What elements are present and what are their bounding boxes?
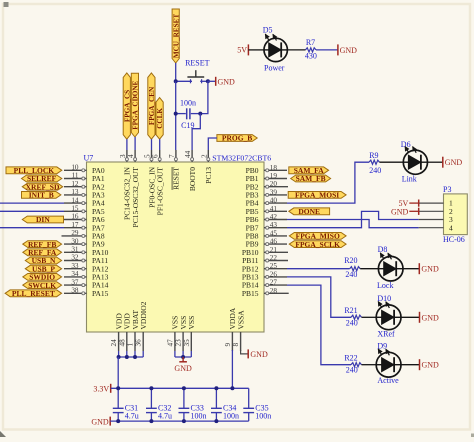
led D9 <box>376 349 401 377</box>
port SWCLK <box>23 281 62 290</box>
svg-text:240: 240 <box>369 166 381 175</box>
pin PA0 (pin 10) left <box>64 164 105 175</box>
svg-text:HC-06: HC-06 <box>443 235 465 244</box>
wire 5V to D5 <box>248 49 264 51</box>
svg-text:BOOT0: BOOT0 <box>188 167 197 191</box>
pin PC15-OSC32_OUT (pin 4) top <box>127 150 140 227</box>
svg-text:FPGA_CDONE: FPGA_CDONE <box>132 80 140 129</box>
svg-text:5V: 5V <box>237 46 247 55</box>
pin VDDA (pin 9) bottom <box>224 307 237 351</box>
resistor R9 240 <box>369 151 381 175</box>
resistor R22 240 <box>344 354 361 375</box>
port FPGA_MOSI <box>288 191 346 200</box>
svg-text:15: 15 <box>71 205 79 213</box>
wire D10 to GND <box>401 316 420 318</box>
svg-text:20: 20 <box>270 180 278 188</box>
pin PB1 (pin 19) right <box>246 172 287 183</box>
port PLL_LOCK <box>6 166 62 175</box>
pin PA14 (pin 37) left <box>64 278 109 289</box>
svg-text:48: 48 <box>118 339 126 347</box>
svg-text:P3: P3 <box>443 185 451 194</box>
svg-text:36: 36 <box>135 339 143 347</box>
connector P3 HC-06 <box>419 194 468 235</box>
pin PA12 (pin 33) left <box>64 262 109 273</box>
port SELREF <box>22 174 62 183</box>
svg-text:GND: GND <box>91 417 109 426</box>
svg-text:FPGA_SCLK: FPGA_SCLK <box>295 240 340 249</box>
wire reset net down to RESET pin 7 <box>175 81 177 150</box>
wire D5 to R7 <box>287 49 305 51</box>
svg-text:4: 4 <box>449 223 453 232</box>
svg-text:9: 9 <box>224 343 232 347</box>
junctions on GND rail <box>116 419 120 423</box>
svg-text:PF1-OSC_OUT: PF1-OSC_OUT <box>156 167 165 216</box>
resistor R21 240 <box>344 306 361 327</box>
wire R22 to D9 <box>362 364 377 366</box>
svg-text:29: 29 <box>71 229 79 237</box>
svg-text:R21: R21 <box>344 306 357 315</box>
svg-text:FPGA_MOSI: FPGA_MOSI <box>295 191 339 200</box>
pin PB8 (pin 45) right <box>246 229 287 240</box>
wire PB14 to R22 <box>287 285 351 365</box>
port SWDIO <box>23 273 62 282</box>
svg-text:32: 32 <box>71 254 79 262</box>
svg-text:VSS: VSS <box>187 316 196 330</box>
pin VDD (pin 24) bottom <box>110 313 123 351</box>
svg-text:45: 45 <box>270 229 278 237</box>
wire VSSA to GND <box>241 350 248 354</box>
svg-text:D6: D6 <box>401 140 411 149</box>
svg-text:13: 13 <box>71 188 79 196</box>
svg-text:PLL_RESET: PLL_RESET <box>12 289 55 298</box>
svg-text:STM32F072CBT6: STM32F072CBT6 <box>212 154 271 163</box>
svg-text:PROG_B: PROG_B <box>222 134 252 143</box>
wire PA5 to left edge <box>0 210 64 212</box>
pin PB12 (pin 25) right <box>242 262 287 273</box>
svg-text:Lock: Lock <box>377 281 393 290</box>
svg-text:RESET: RESET <box>185 58 210 67</box>
pin VSS (pin 35) bottom <box>183 316 196 351</box>
junction reset-right <box>206 79 210 83</box>
power GND at R7 <box>338 44 357 55</box>
port FPGA_CDONE <box>131 73 139 137</box>
port INIT_B <box>22 191 61 200</box>
power GND at VSSA <box>248 349 268 359</box>
svg-text:PC13: PC13 <box>204 167 213 184</box>
pin PC13 (pin 2) top <box>200 150 213 184</box>
pin PA3 (pin 13) left <box>64 188 105 199</box>
svg-text:10: 10 <box>71 164 79 172</box>
pin PA7 (pin 17) left <box>64 221 105 232</box>
wire MCU_RESET to reset net <box>175 63 177 81</box>
svg-text:GND: GND <box>340 46 358 55</box>
pin VSSA (pin 8) bottom <box>232 310 245 351</box>
pin PB5 (pin 41) right <box>246 205 287 216</box>
port SAM_FA <box>289 166 329 175</box>
svg-text:19: 19 <box>270 172 278 180</box>
svg-text:26: 26 <box>270 270 278 278</box>
svg-text:GND: GND <box>218 77 236 86</box>
wire PC13 to PROG_B <box>208 138 217 150</box>
svg-text:37: 37 <box>71 278 79 286</box>
power GND at D10 <box>420 312 440 323</box>
svg-text:MCU_RESET: MCU_RESET <box>172 14 180 59</box>
svg-text:31: 31 <box>71 246 79 254</box>
svg-text:DONE: DONE <box>298 207 320 216</box>
wire PA7 to left edge <box>0 227 64 229</box>
port XREF_SD <box>22 182 62 191</box>
pin PB11 (pin 22) right <box>242 254 288 265</box>
port FPGA_CEN <box>148 73 156 139</box>
pin PA5 (pin 15) left <box>64 205 105 216</box>
wire R7 to GND <box>316 49 338 51</box>
led D6 <box>403 146 427 174</box>
svg-text:33: 33 <box>71 262 79 270</box>
pin PB2 (pin 20) right <box>246 180 288 191</box>
pin PB15 (pin 28) right <box>242 287 289 298</box>
port REF_FB <box>23 240 62 249</box>
pin PA1 (pin 11) left <box>64 172 105 183</box>
svg-text:U7: U7 <box>84 153 94 162</box>
svg-text:D5: D5 <box>263 25 273 34</box>
svg-text:4.7u: 4.7u <box>158 412 172 421</box>
wire R9 to D6 <box>380 161 404 163</box>
port DIN <box>22 215 63 224</box>
pin PA13 (pin 34) left <box>64 270 109 281</box>
led D8 <box>378 253 403 281</box>
pin PA8 (pin 29) left <box>62 229 105 240</box>
svg-text:23: 23 <box>175 339 183 347</box>
junction VSS pins <box>181 355 185 359</box>
svg-text:SAM_FB: SAM_FB <box>296 174 326 183</box>
svg-text:D8: D8 <box>378 245 388 254</box>
pin PA2 (pin 12) left <box>64 180 105 191</box>
pin PB9 (pin 46) right <box>246 238 287 249</box>
wire PB4 to R9 <box>287 162 369 203</box>
svg-text:Power: Power <box>264 63 285 72</box>
port USB_P <box>25 264 61 273</box>
svg-text:46: 46 <box>270 238 278 246</box>
wire PB7 to P3 pin 3 (hop over) <box>287 211 419 227</box>
port SAM_FB <box>291 174 331 183</box>
wire CCLK to pin 6 <box>159 139 161 150</box>
switch RESET pushbutton <box>176 58 210 83</box>
svg-text:47: 47 <box>166 339 174 347</box>
pin PF0-OSC_IN (pin 5) top <box>144 150 157 208</box>
power 5V at D5 <box>237 44 248 55</box>
wire reset-right down to C19 right <box>200 81 208 113</box>
svg-text:DIN: DIN <box>36 215 50 224</box>
port REF_FA <box>23 248 62 257</box>
wire VDDA down to 3.3V rail <box>231 350 233 388</box>
capacitor C35 100n <box>243 388 271 421</box>
led D5 <box>264 34 287 62</box>
svg-text:14: 14 <box>71 196 79 204</box>
pin PA10 (pin 31) left <box>64 246 109 257</box>
svg-text:FPGA_CEN: FPGA_CEN <box>148 86 156 125</box>
svg-text:GND: GND <box>250 350 268 359</box>
svg-text:PB15: PB15 <box>242 289 259 298</box>
svg-text:8: 8 <box>232 343 240 347</box>
svg-text:30: 30 <box>71 237 79 245</box>
wire D8 to GND <box>403 268 419 270</box>
svg-text:GND: GND <box>174 364 192 373</box>
led D10 <box>376 302 401 330</box>
power GND at VSS <box>174 357 192 373</box>
pin VDDIO2 (pin 36) bottom <box>135 301 148 351</box>
power 5V at P3 pin1 <box>399 199 419 208</box>
svg-text:34: 34 <box>71 270 79 278</box>
svg-text:GND: GND <box>421 264 439 273</box>
power GND at D6 <box>443 157 463 168</box>
svg-text:100n: 100n <box>223 412 239 421</box>
svg-text:XRef: XRef <box>377 330 395 339</box>
svg-text:GND: GND <box>445 158 463 167</box>
svg-text:18: 18 <box>270 164 278 172</box>
svg-text:39: 39 <box>270 188 278 196</box>
svg-text:R20: R20 <box>344 256 357 265</box>
pin BOOT0 (pin 44) top <box>184 150 197 191</box>
svg-text:GND: GND <box>391 207 409 216</box>
resistor R7 430 <box>305 38 317 60</box>
svg-text:22: 22 <box>270 254 278 262</box>
svg-text:4.7u: 4.7u <box>125 412 139 421</box>
svg-text:42: 42 <box>270 213 278 221</box>
capacitor C34 100n <box>211 388 239 421</box>
wire FPGA_CEN to pin 5 <box>151 139 153 150</box>
svg-text:40: 40 <box>270 197 278 205</box>
port PROG_B <box>217 134 257 143</box>
svg-text:1: 1 <box>127 343 135 347</box>
svg-text:41: 41 <box>270 205 278 213</box>
svg-text:100n: 100n <box>191 412 207 421</box>
junction reset-left <box>174 79 178 83</box>
power GND at D8 <box>419 263 439 274</box>
svg-text:11: 11 <box>72 172 79 180</box>
svg-text:430: 430 <box>305 52 317 61</box>
svg-text:27: 27 <box>270 279 278 287</box>
port MCU_RESET <box>172 9 180 63</box>
svg-text:VDDIO2: VDDIO2 <box>139 301 148 329</box>
pin VDD (pin 48) bottom <box>118 313 131 351</box>
junctions on 3.3V rail <box>116 386 120 390</box>
pin PB10 (pin 21) right <box>242 246 288 257</box>
pin PA4 (pin 14) left <box>64 196 105 207</box>
svg-text:3.3V: 3.3V <box>93 385 109 394</box>
power GND at P3 pin2 <box>391 207 419 216</box>
junction C19 left <box>174 112 178 116</box>
pin PA9 (pin 30) left <box>64 237 105 248</box>
pin VBAT (pin 1) bottom <box>127 309 140 351</box>
svg-text:D9: D9 <box>377 341 387 350</box>
wire FPGA_CDONE to pin 4 <box>134 137 136 150</box>
pin PC14-OSC32_IN (pin 3) top <box>119 150 132 220</box>
svg-text:R9: R9 <box>369 151 378 160</box>
pin PB13 (pin 26) right <box>242 270 287 281</box>
svg-text:R7: R7 <box>306 38 315 47</box>
svg-text:12: 12 <box>71 180 79 188</box>
pin PA15 (pin 38) left <box>64 287 109 298</box>
wire VSS group connector <box>175 351 191 357</box>
svg-text:43: 43 <box>270 221 278 229</box>
svg-text:4: 4 <box>127 154 135 158</box>
wire PB13 to R21 <box>287 277 351 317</box>
svg-text:100n: 100n <box>255 412 271 421</box>
svg-text:CCLK: CCLK <box>156 108 164 129</box>
port DONE <box>289 207 330 216</box>
pin PF1-OSC_OUT (pin 6) top <box>152 150 165 215</box>
svg-text:Active: Active <box>377 376 399 385</box>
capacitor C33 100n <box>179 388 207 421</box>
svg-text:GND: GND <box>422 313 440 322</box>
wire D9 to GND <box>401 364 420 366</box>
pin PB6 (pin 42) right <box>246 213 287 224</box>
wire C19 right down to BOOT0 pin 44 <box>192 114 200 150</box>
capacitor C31 4.7u <box>113 388 139 421</box>
power GND at reset switch <box>208 77 235 87</box>
svg-text:D10: D10 <box>377 294 391 303</box>
pin PA6 (pin 16) left <box>64 213 105 224</box>
svg-text:16: 16 <box>71 213 79 221</box>
wire D6 to GND <box>428 161 443 163</box>
svg-text:25: 25 <box>270 262 278 270</box>
port USB_N <box>25 256 61 265</box>
pin PB14 (pin 27) right <box>242 279 287 290</box>
port PLL_RESET <box>5 289 62 298</box>
svg-text:PC15-OSC32_OUT: PC15-OSC32_OUT <box>131 167 140 228</box>
power 3.3V rail <box>93 384 248 394</box>
port CCLK <box>156 98 164 140</box>
junction VDD pins <box>117 355 121 359</box>
svg-text:3: 3 <box>119 154 127 158</box>
svg-text:5: 5 <box>144 154 152 158</box>
svg-text:GND: GND <box>422 361 440 370</box>
svg-text:240: 240 <box>346 365 358 374</box>
svg-text:2: 2 <box>200 154 208 158</box>
svg-text:38: 38 <box>71 287 79 295</box>
wire FPGA_CS to pin 3 <box>126 139 128 150</box>
pin PB3 (pin 39) right <box>246 188 287 199</box>
pin PB4 (pin 40) right <box>246 197 287 208</box>
wire PA4 to left edge <box>0 202 64 204</box>
power GND rail <box>91 417 248 427</box>
pin PB7 (pin 43) right <box>246 221 287 232</box>
pin RESET (pin 7) top <box>168 150 181 190</box>
port FPGA_CS <box>123 73 131 139</box>
capacitor C32 4.7u <box>146 388 172 421</box>
power GND at D9 <box>420 359 440 370</box>
wire PB6 to P3 pin 4 (with jog down) <box>287 220 419 228</box>
svg-text:21: 21 <box>270 246 278 254</box>
svg-text:PA15: PA15 <box>92 289 109 298</box>
svg-text:240: 240 <box>346 319 358 328</box>
svg-text:6: 6 <box>152 154 160 158</box>
svg-text:RESET: RESET <box>172 167 181 190</box>
wire R20 to D8 <box>360 268 378 270</box>
svg-text:R22: R22 <box>344 354 357 363</box>
svg-text:INIT_B: INIT_B <box>29 191 54 200</box>
junction C19 right <box>198 112 202 116</box>
pin VSS (pin 47) bottom <box>166 316 179 351</box>
svg-text:VSSA: VSSA <box>236 310 245 330</box>
resistor R20 240 <box>344 256 360 279</box>
capacitor C19 100n <box>176 98 201 130</box>
wire VDD group connector <box>119 351 144 357</box>
wire PB12 to R20 <box>287 268 350 270</box>
port FPGA_SCLK <box>289 240 346 249</box>
svg-text:35: 35 <box>183 339 191 347</box>
svg-text:24: 24 <box>110 339 118 347</box>
port FPGA_MISO <box>289 232 346 241</box>
svg-text:240: 240 <box>345 270 357 279</box>
svg-text:Link: Link <box>402 175 417 184</box>
pin PB0 (pin 18) right <box>246 164 287 175</box>
svg-text:7: 7 <box>168 154 176 158</box>
svg-text:FPGA_CS: FPGA_CS <box>123 90 131 122</box>
wire R21 to D10 <box>362 316 377 318</box>
svg-text:17: 17 <box>71 221 79 229</box>
pin VSS (pin 23) bottom <box>175 316 188 351</box>
svg-text:44: 44 <box>184 150 192 158</box>
pin PA11 (pin 32) left <box>64 254 108 265</box>
wire VDD down to 3.3V rail <box>117 357 119 388</box>
svg-text:100n: 100n <box>180 98 196 107</box>
svg-text:28: 28 <box>270 287 278 295</box>
mcu U7 body <box>87 162 265 332</box>
